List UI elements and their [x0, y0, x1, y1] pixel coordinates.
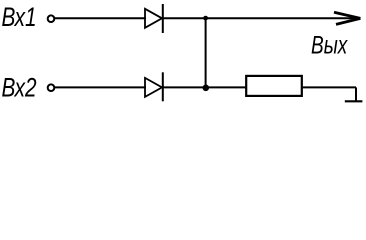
junction bottom — [203, 85, 210, 92]
wire VD2 cathode to resistor — [163, 86, 246, 88]
diode VD1 — [145, 4, 163, 33]
wire Вх2 to VD2 anode — [55, 86, 146, 88]
ground — [345, 100, 363, 102]
wire Вх1 to VD1 anode — [55, 17, 146, 19]
junction top — [203, 16, 208, 21]
output arrow — [334, 12, 360, 24]
svg-text:Вх1: Вх1 — [2, 2, 37, 32]
wire vertical branch — [205, 18, 207, 87]
wire VD1 cathode to output arrow — [163, 17, 359, 19]
diode VD2 — [145, 72, 163, 101]
node Вых label — [311, 31, 348, 59]
terminal Вх1 — [48, 15, 55, 22]
svg-text:Вх2: Вх2 — [2, 73, 38, 103]
node Вх2 label — [2, 73, 38, 103]
wire ground stem — [355, 87, 357, 100]
svg-text:Вых: Вых — [311, 31, 348, 59]
terminal Вх2 — [48, 84, 55, 91]
resistor R1 — [246, 76, 302, 96]
wire resistor to ground stem — [302, 86, 356, 88]
node Вх1 label — [2, 2, 37, 32]
